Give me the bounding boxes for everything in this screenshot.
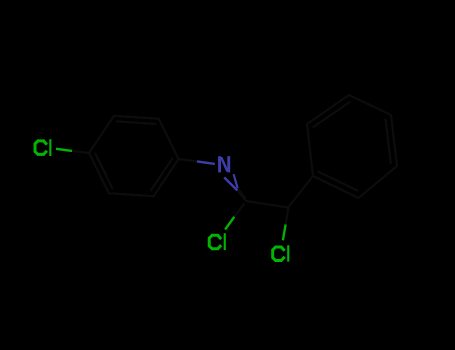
ring2 aromatic inner line right xyxy=(386,119,391,163)
bond ringB-N nitrogen half xyxy=(197,161,215,164)
atom label Cl1 (on imidoyl carbon C1): letter C xyxy=(209,235,221,249)
atom label N (imine nitrogen) xyxy=(218,156,230,172)
bond N=C1 nitrogen half inner xyxy=(234,174,238,188)
atom label Cl2 (on alpha carbon C2): letter l xyxy=(287,245,289,261)
bond C1-C2 xyxy=(246,201,288,208)
bond C1-Cl1 carbon half xyxy=(234,204,243,217)
bond C2-ring2 xyxy=(288,176,313,208)
bond N=C1 carbon half inner xyxy=(238,188,246,198)
ring2 aromatic inner line top-left xyxy=(313,102,349,127)
bond N=C1 carbon half outer xyxy=(237,190,246,201)
atom label Cl (para chlorine on ring1): letter C xyxy=(35,141,47,155)
bond Cl-ringA chlorine half xyxy=(56,149,72,151)
bond ringB-N carbon half xyxy=(179,159,198,161)
bond C2-Cl2 carbon half xyxy=(286,209,289,225)
bond N=C1 nitrogen half outer xyxy=(224,177,237,190)
ring2 benzene (phenyl) xyxy=(307,95,397,198)
bond Cl-ringA carbon half xyxy=(72,151,89,153)
ring1 aromatic inner line right xyxy=(151,159,172,191)
ring1 benzene (4-chlorophenyl) xyxy=(89,116,179,196)
atom label Cl2 (on alpha carbon C2): letter C xyxy=(273,247,285,261)
ring2 aromatic inner line bottom xyxy=(319,172,358,191)
ring1 aromatic inner line left xyxy=(95,153,112,188)
bond C2-Cl2 chlorine half xyxy=(283,225,286,241)
atom label Cl (para chlorine on ring1): letter l xyxy=(49,139,51,156)
atom label Cl1 (on imidoyl carbon C1): letter l xyxy=(224,233,226,250)
bond C1-Cl1 chlorine half xyxy=(225,217,234,230)
ring1 aromatic inner line top xyxy=(117,121,156,124)
